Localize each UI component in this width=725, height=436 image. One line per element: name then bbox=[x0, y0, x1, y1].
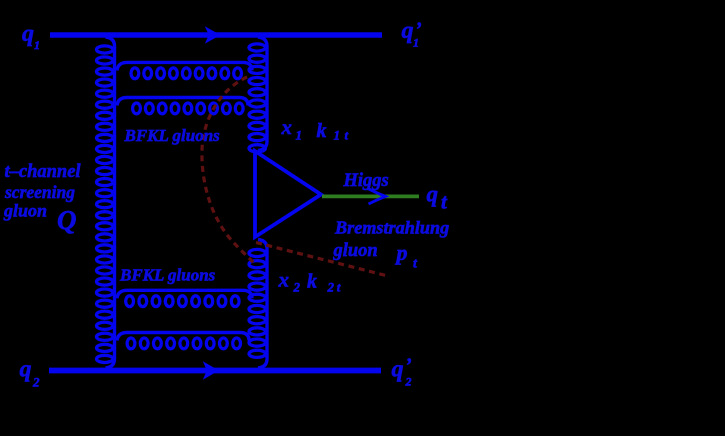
svg-text:1: 1 bbox=[413, 36, 419, 50]
svg-text:t–channel: t–channel bbox=[5, 162, 82, 182]
svg-text:1: 1 bbox=[34, 38, 40, 52]
svg-text:q: q bbox=[392, 357, 404, 383]
svg-text:Q: Q bbox=[57, 205, 77, 235]
svg-text:x: x bbox=[278, 267, 290, 291]
svg-text:2: 2 bbox=[32, 375, 40, 390]
svg-text:screening: screening bbox=[4, 182, 75, 202]
svg-text:p: p bbox=[395, 240, 408, 265]
svg-text:1: 1 bbox=[296, 128, 303, 143]
svg-text:gluon: gluon bbox=[3, 201, 47, 221]
svg-text:2: 2 bbox=[405, 375, 412, 389]
svg-text:BFKL gluons: BFKL gluons bbox=[119, 266, 216, 285]
svg-text:q: q bbox=[402, 18, 414, 44]
svg-text:2: 2 bbox=[293, 280, 301, 295]
svg-text:q: q bbox=[22, 21, 34, 47]
svg-text:k: k bbox=[317, 120, 327, 142]
svg-text:Higgs: Higgs bbox=[343, 171, 389, 191]
svg-text:1: 1 bbox=[334, 128, 341, 143]
svg-text:’: ’ bbox=[405, 355, 412, 377]
svg-text:t: t bbox=[337, 280, 341, 295]
svg-text:gluon: gluon bbox=[333, 241, 378, 261]
svg-text:t: t bbox=[441, 190, 448, 214]
svg-text:BFKL gluons: BFKL gluons bbox=[124, 126, 221, 145]
svg-text:q: q bbox=[427, 182, 439, 207]
svg-text:2: 2 bbox=[327, 280, 335, 295]
svg-text:q: q bbox=[20, 357, 32, 383]
svg-text:Bremstrahlung: Bremstrahlung bbox=[334, 218, 449, 238]
svg-text:t: t bbox=[413, 257, 418, 272]
svg-text:k: k bbox=[307, 271, 317, 293]
svg-text:x: x bbox=[281, 115, 293, 139]
svg-text:t: t bbox=[345, 128, 349, 143]
